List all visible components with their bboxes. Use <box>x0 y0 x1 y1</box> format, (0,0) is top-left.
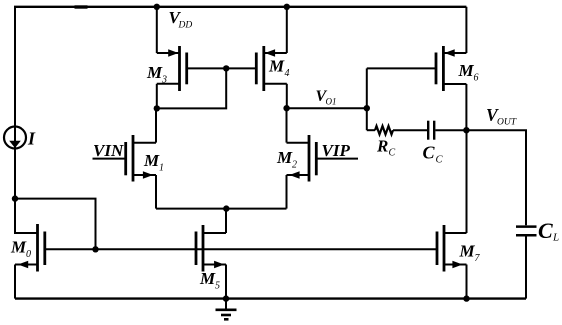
wire bias node to gate line <box>15 199 96 250</box>
svg-text:M: M <box>199 269 216 288</box>
junction VO1 left <box>283 105 289 111</box>
transistor M7 <box>437 225 481 272</box>
wire left vertical VDD to M0 drain <box>15 7 38 233</box>
svg-text:M: M <box>268 57 285 76</box>
junction gate line tap <box>92 246 98 252</box>
node VIN label <box>93 141 124 160</box>
wire M3 diode connection <box>157 68 226 108</box>
wire M3 source to VDD <box>156 7 158 53</box>
wire VDD rail thick joint segment <box>75 5 88 8</box>
wire gate line M3-M4 <box>187 67 257 69</box>
svg-text:5: 5 <box>215 281 220 292</box>
junction tail node <box>223 205 229 211</box>
wire M1 source vertical <box>155 175 157 209</box>
junction VDD-M3 <box>154 4 160 10</box>
transistor M2 <box>276 135 358 182</box>
svg-text:6: 6 <box>474 73 479 84</box>
wire tail line <box>156 208 287 210</box>
wire M6 gate vertical <box>366 68 368 130</box>
wire M6 source to VDD <box>465 7 467 53</box>
svg-text:1: 1 <box>159 163 164 174</box>
node VIP label <box>322 141 351 160</box>
wire M3 drain down <box>156 84 158 109</box>
wire M2 source vertical <box>286 175 288 209</box>
wire M2 drain vertical <box>286 108 288 142</box>
wire M7 drain vertical <box>466 130 468 233</box>
svg-text:L: L <box>552 232 559 244</box>
svg-text:VIP: VIP <box>322 141 351 160</box>
junction VOUT <box>463 127 469 133</box>
ground symbol <box>216 299 237 320</box>
svg-text:R: R <box>376 137 388 156</box>
svg-text:4: 4 <box>285 68 290 79</box>
svg-text:C: C <box>389 148 396 159</box>
wire M6 gate line <box>367 67 436 69</box>
junction ground-M7 <box>463 295 469 301</box>
transistor M4 <box>256 46 289 91</box>
node VO1 label <box>316 88 337 107</box>
wire gate bias line M0-M5-M7 <box>45 248 437 250</box>
wire VOUT line to CL <box>466 130 526 225</box>
svg-text:M: M <box>143 151 160 170</box>
junction M3 drain node <box>154 105 160 111</box>
wire M5 drain vertical <box>225 209 227 233</box>
svg-text:3: 3 <box>161 75 167 86</box>
node I label <box>27 129 36 149</box>
junction VO1 right <box>364 105 370 111</box>
transistor M3 <box>146 46 187 91</box>
svg-text:0: 0 <box>26 249 31 260</box>
svg-text:O1: O1 <box>326 97 337 107</box>
junction bias node <box>12 195 18 201</box>
svg-text:7: 7 <box>475 253 481 264</box>
svg-text:M: M <box>146 63 163 82</box>
wire ground rail <box>15 297 526 299</box>
svg-text:OUT: OUT <box>497 117 517 127</box>
svg-text:M: M <box>10 238 27 257</box>
resistor RC <box>367 126 427 159</box>
transistor M1 <box>93 135 165 182</box>
junction VDD-M4 <box>284 4 290 10</box>
wire M7 source to ground <box>466 265 468 299</box>
svg-text:I: I <box>27 129 36 149</box>
svg-text:C: C <box>538 218 553 243</box>
transistor M0 <box>10 224 45 272</box>
current source I <box>4 127 26 149</box>
wire M1 drain vertical <box>155 108 157 142</box>
svg-text:VIN: VIN <box>93 141 124 160</box>
wire CL to ground <box>525 236 527 298</box>
transistor M6 <box>436 46 479 91</box>
wire VO1 line <box>287 107 367 109</box>
wire M6 drain to VOUT <box>465 84 467 130</box>
wire M0 source to ground <box>14 265 16 299</box>
capacitor CL <box>516 218 559 244</box>
wire VDD rail <box>14 6 466 8</box>
junction ground-M5 <box>223 295 229 301</box>
svg-text:2: 2 <box>292 160 297 171</box>
node VDD label <box>169 8 193 31</box>
node VOUT label <box>486 105 517 128</box>
svg-text:DD: DD <box>178 21 193 31</box>
wire M4 drain to VO1 <box>286 84 288 108</box>
capacitor CC <box>423 121 467 166</box>
svg-text:M: M <box>458 61 475 80</box>
transistor M5 <box>196 225 226 292</box>
wire M4 source to VDD <box>286 7 288 53</box>
svg-text:C: C <box>423 143 436 163</box>
wire M5 source to ground <box>225 265 227 299</box>
junction M3 gate node <box>223 65 229 71</box>
svg-text:M: M <box>276 148 293 167</box>
svg-text:M: M <box>459 242 476 261</box>
svg-text:C: C <box>436 155 444 166</box>
